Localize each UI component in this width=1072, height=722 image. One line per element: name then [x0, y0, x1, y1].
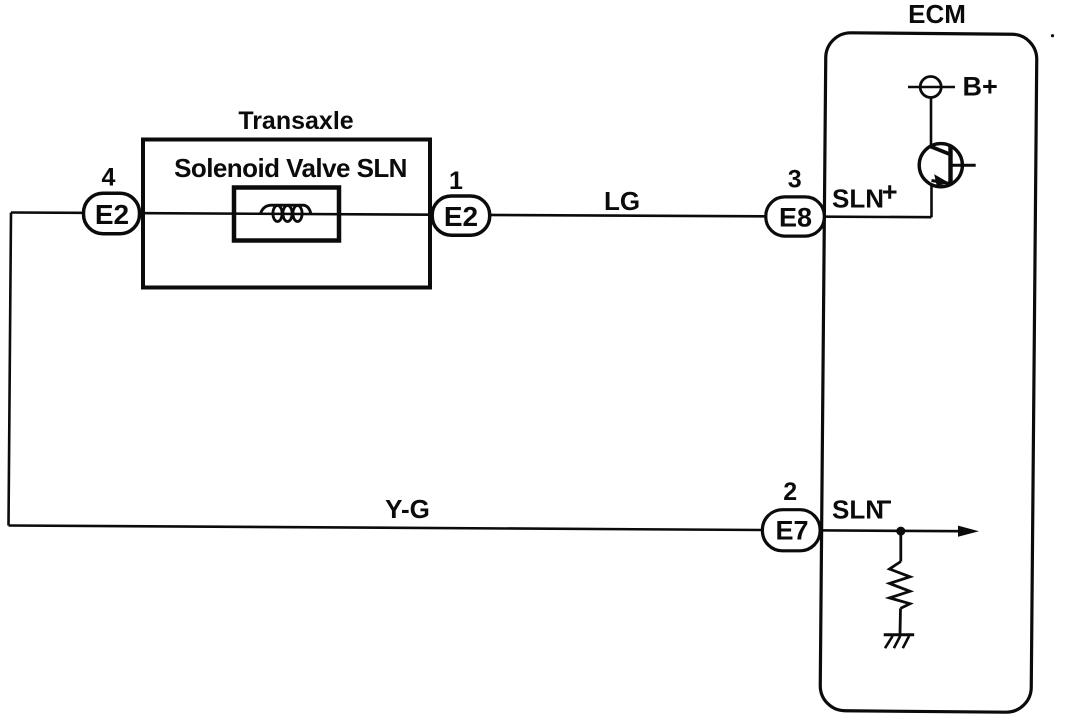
svg-text:Transaxle: Transaxle	[238, 107, 353, 135]
svg-text:LG: LG	[604, 186, 640, 216]
svg-text:Solenoid Valve SLN: Solenoid Valve SLN	[174, 153, 407, 183]
connector E2 pin 1 (right)	[432, 196, 490, 235]
net label SLN-	[832, 495, 891, 525]
connector E7 pin 2	[762, 510, 820, 551]
label: B+	[963, 72, 998, 102]
wire: bottom wire (E2-4 to SLN-, Y-G)	[9, 526, 963, 532]
arrow: SLN- signal to right	[958, 526, 979, 537]
svg-text:2: 2	[783, 478, 797, 506]
label: Solenoid Valve SLN	[174, 153, 407, 183]
box: Transaxle enclosure	[143, 140, 430, 288]
transistor Q (PNP, ECM output)	[919, 144, 976, 187]
pin number 1	[449, 167, 463, 195]
box: ECM enclosure	[820, 33, 1037, 713]
svg-text:Y-G: Y-G	[385, 494, 430, 524]
inductor: solenoid coil L	[261, 205, 311, 221]
connector E8 pin 3	[766, 197, 825, 236]
wire: B+ to transistor collector vertical	[930, 98, 933, 146]
box: solenoid valve inner box	[234, 188, 339, 241]
connector E2 pin 4 (left)	[84, 193, 140, 233]
svg-text:E8: E8	[779, 203, 812, 233]
svg-text:E7: E7	[775, 516, 808, 546]
svg-text:E2: E2	[444, 201, 478, 232]
wire: transistor emitter vertical into SLN+ node	[930, 185, 933, 217]
wire: left vertical wire	[9, 213, 12, 526]
svg-text:B+: B+	[963, 72, 998, 102]
power symbol B+ circle	[908, 77, 955, 98]
svg-text:E2: E2	[95, 199, 129, 230]
pin number 3	[788, 166, 802, 194]
pin number 4	[102, 164, 116, 192]
svg-text:4: 4	[102, 164, 116, 192]
ground symbol	[884, 635, 915, 648]
pin number 2	[783, 478, 797, 506]
net label SLN+	[832, 184, 897, 214]
wire: top wire (E2-4 to SLN+ node, LG)	[11, 213, 932, 218]
label: wire color Y-G	[385, 494, 430, 524]
svg-text:ECM: ECM	[908, 0, 966, 29]
label: Transaxle	[238, 107, 353, 135]
resistor R (pull-down)	[890, 531, 911, 634]
artifact dot	[1051, 34, 1054, 37]
node: SLN- junction dot	[896, 527, 905, 536]
svg-text:3: 3	[788, 166, 802, 194]
label: wire color LG	[604, 186, 640, 216]
svg-text:SLN: SLN	[832, 495, 884, 525]
svg-text:1: 1	[449, 167, 463, 195]
label: ECM	[908, 0, 966, 29]
svg-text:SLN: SLN	[832, 184, 884, 214]
